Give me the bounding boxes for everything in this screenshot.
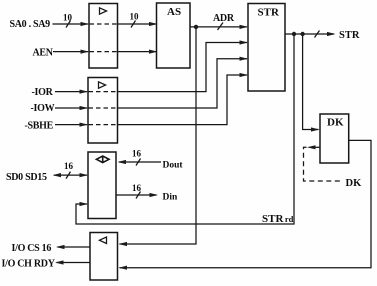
bus slash 10 (SA input): [66, 21, 71, 28]
wire -SBHE U2 to STR: [118, 75, 248, 125]
transceiver U3 (data transceiver): [88, 152, 116, 219]
svg-text:10: 10: [130, 12, 140, 22]
svg-text:Dout: Dout: [163, 160, 184, 170]
block U4 AS: [157, 3, 191, 68]
arrowhead I/O CS 16: [56, 245, 65, 249]
wire AEN U1 to AS: [118, 51, 157, 53]
buffer U2 (control buffer): [88, 78, 118, 144]
svg-text:I/O CS 16: I/O CS 16: [12, 243, 52, 254]
arrowhead -SBHE into U2: [80, 123, 89, 127]
svg-text:16: 16: [64, 161, 74, 171]
wire DK right output to U7: [120, 140, 372, 267]
arrowhead STR_rd into U3: [80, 202, 89, 206]
arrowhead STR output: [327, 32, 336, 36]
arrowhead SBHE into STR: [240, 73, 249, 77]
arrowhead SA into AS: [149, 22, 158, 26]
bus slash 16 (SD): [66, 172, 71, 179]
wire STR_rd : junction down, left, up into U3: [76, 34, 294, 224]
svg-text:AEN: AEN: [33, 48, 54, 59]
wire -IOW U2 to STR: [118, 59, 248, 108]
svg-text:ADR: ADR: [213, 13, 235, 24]
svg-text:STRrd: STRrd: [262, 213, 294, 225]
wire SA0..SA9 to U1: [53, 23, 89, 25]
wire STR_rd branch riser to DK: [303, 34, 319, 130]
wire -IOR U2 to STR: [118, 43, 248, 92]
wire AEN inside U1 (dashed): [90, 51, 118, 53]
buffer symbol U1: [100, 8, 107, 14]
arrowhead SD into U3: [80, 173, 89, 177]
arrowhead Dout into U3: [118, 160, 127, 164]
wire SD0..SD15 bidirectional: [54, 174, 87, 176]
svg-text:I/O CH RDY: I/O CH RDY: [2, 258, 56, 269]
arrowhead IOW into STR: [240, 57, 249, 61]
buffer symbol U2: [99, 82, 106, 89]
wire DK left output stub: [310, 146, 321, 148]
svg-text:AS: AS: [167, 6, 181, 18]
arrowhead DK left output: [307, 145, 316, 149]
block U5 STR: [248, 4, 285, 92]
svg-text:10: 10: [63, 13, 73, 23]
wire -IOR inside U2 (dashed): [89, 91, 118, 93]
svg-text:16: 16: [132, 149, 142, 159]
svg-text:STR: STR: [339, 30, 360, 41]
wire SA bus U1 to AS: [118, 23, 157, 25]
arrowhead -IOW into U2: [80, 106, 89, 110]
wire -IOW inside U2 (dashed): [89, 107, 118, 109]
wire ADR vertical drop to U7: [120, 27, 197, 244]
svg-text:-IOR: -IOR: [32, 87, 54, 98]
bus slash ADR: [218, 23, 224, 31]
svg-text:SD0 SD15: SD0 SD15: [6, 172, 47, 183]
bus slash 16 (Dout): [136, 159, 141, 166]
svg-text:SA0 . SA9: SA0 . SA9: [10, 19, 51, 30]
bus slash 10 (U1 to AS): [131, 21, 136, 28]
svg-text:-IOW: -IOW: [31, 103, 55, 114]
wire -SBHE inside U2 (dashed): [89, 124, 118, 126]
buffer U1 (address buffer): [89, 4, 118, 69]
wire I/O CH RDY output: [57, 262, 91, 264]
wire SA bus inside U1 (dashed): [90, 23, 118, 25]
arrowhead SA into U1: [81, 22, 90, 26]
buffer symbol U7: [99, 237, 106, 244]
arrowhead ADR into U7: [119, 242, 128, 246]
arrowhead IOR into STR: [240, 40, 249, 44]
svg-text:16: 16: [132, 183, 142, 193]
junction node STR out 1: [292, 32, 296, 36]
arrowhead AEN into U1: [81, 50, 90, 54]
svg-text:-SBHE: -SBHE: [25, 120, 54, 131]
arrowhead SD left: [53, 173, 62, 177]
arrowhead bottom line into U7: [119, 266, 128, 270]
wire ADR : AS to STR: [190, 26, 247, 28]
transceiver symbol U3: [96, 156, 109, 163]
wire AEN to U1: [53, 51, 88, 53]
wire DK dashed feedback to DK label: [304, 147, 344, 181]
bus slash 16 (Din): [136, 192, 141, 199]
svg-text:DK: DK: [346, 178, 363, 189]
arrowhead AEN into AS: [149, 50, 158, 54]
wire STR output: [285, 33, 334, 35]
junction node at AS output: [194, 25, 198, 29]
arrowhead Din output: [150, 193, 159, 197]
block U6 DK: [320, 114, 349, 163]
bus slash STR out: [315, 31, 320, 38]
svg-text:Din: Din: [163, 192, 179, 202]
wire I/O CS 16 output: [58, 246, 91, 248]
wire -SBHE to U2: [55, 124, 87, 126]
arrowhead ADR into STR: [240, 25, 249, 29]
wire -IOR to U2: [55, 91, 87, 93]
arrowhead STR riser into DK: [311, 127, 320, 131]
arrowhead I/O CH RDY: [55, 260, 64, 264]
wire Din out of U3: [116, 194, 157, 196]
wire -IOW to U2: [55, 107, 87, 109]
arrowhead -IOR into U2: [80, 90, 89, 94]
svg-text:STR: STR: [258, 7, 280, 19]
wire Dout into U3: [119, 161, 161, 163]
svg-text:DK: DK: [327, 117, 344, 129]
buffer U7 (I/O decode): [90, 233, 118, 281]
junction node STR out 2: [300, 32, 304, 36]
